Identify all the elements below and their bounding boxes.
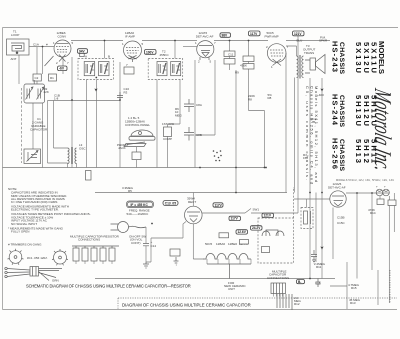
- svg-text:117V: 117V: [215, 203, 223, 207]
- svg-text:DET-AVC-AF: DET-AVC-AF: [196, 35, 214, 39]
- panel two fragment capacitors: [277, 294, 292, 310]
- svg-text:C2: C2: [35, 76, 39, 80]
- svg-text:470K: 470K: [240, 64, 247, 68]
- svg-text:CAPACITOR: CAPACITOR: [30, 128, 48, 132]
- svg-text:B-: B-: [298, 280, 301, 284]
- svg-text:R3: R3: [124, 90, 128, 94]
- wire B plus feed: [297, 36, 299, 213]
- wire antenna to converter grid: [29, 46, 54, 48]
- wire speaker return: [309, 78, 311, 279]
- svg-text:IF AMP: IF AMP: [125, 35, 135, 39]
- antenna cable assembly: [5, 267, 62, 281]
- svg-text:R13: R13: [350, 301, 356, 305]
- wire det fragment verticals: [333, 193, 394, 303]
- B plus arrow: [94, 84, 97, 92]
- voltage callout B plus: [293, 31, 305, 36]
- svg-text:C11: C11: [228, 53, 234, 57]
- svg-text:B: B: [108, 55, 110, 59]
- svg-text:50C5: 50C5: [205, 242, 213, 246]
- pill B minus: [297, 280, 305, 284]
- oscillator variable capacitor C1C: [24, 149, 41, 164]
- svg-text:R8: R8: [248, 98, 252, 102]
- svg-text:C8B: C8B: [196, 133, 202, 137]
- B plus arrow below transformer: [320, 84, 323, 92]
- svg-text:R5: R5: [128, 189, 132, 193]
- capacitor C2 box: [33, 74, 41, 81]
- wire top bus: [71, 40, 330, 42]
- chassis labels: [338, 42, 345, 171]
- capacitor C8A: [184, 99, 194, 112]
- resistor R3 box on AVC bus: [86, 171, 92, 181]
- AVC capacitor box C7: [164, 127, 172, 137]
- resistor R10 box: [262, 247, 270, 253]
- svg-text:IF = 455 KC: IF = 455 KC: [131, 203, 149, 207]
- wire T2 returns: [157, 80, 180, 168]
- tube V3 12AT6 detector-AVC-AF: [197, 41, 214, 60]
- resistor R4a box: [132, 152, 141, 160]
- oscillator coil L3: [68, 147, 77, 164]
- wire screen rail: [321, 78, 323, 279]
- electrolytic filter capacitor C15A: [376, 189, 383, 196]
- svg-text:CONNECTIONS: CONNECTIONS: [267, 276, 289, 280]
- svg-text:UNIT: UNIT: [228, 287, 235, 291]
- svg-text:121V: 121V: [294, 32, 302, 36]
- wire T1 secondary returns: [48, 80, 121, 168]
- tube V1 12BE6 converter: [45, 40, 72, 66]
- ground chassis: [143, 262, 149, 268]
- voltage callout V4 grid: [249, 31, 261, 36]
- border left: [2, 28, 4, 310]
- svg-text:1-8: 1-8: [54, 97, 59, 101]
- wire det plate L: [249, 111, 265, 168]
- wire IF primary risers: [105, 41, 176, 59]
- AC line plug: [111, 222, 147, 233]
- svg-text:HS-244: HS-244: [331, 94, 340, 126]
- svg-text:CONTROL PANEL: CONTROL PANEL: [125, 123, 150, 127]
- small note lines: [305, 86, 319, 184]
- voltage callout osc: [58, 66, 68, 71]
- svg-text:TRANS: TRANS: [304, 51, 314, 55]
- svg-text:OSC: OSC: [79, 147, 86, 151]
- svg-text:CONNECTIONS: CONNECTIONS: [78, 238, 100, 242]
- svg-text:CONT): CONT): [131, 241, 141, 245]
- wire osc grid drop: [33, 47, 63, 149]
- svg-text:455KC: 455KC: [160, 53, 170, 57]
- svg-text:ANT: ANT: [11, 57, 17, 61]
- svg-text:540——1620KC: 540——1620KC: [127, 212, 150, 216]
- IF transformer T2 455KC: [148, 59, 183, 80]
- tube V4 50C5 power amplifier: [267, 44, 286, 66]
- svg-text:RECT: RECT: [188, 200, 196, 204]
- svg-text:C16: C16: [315, 281, 321, 285]
- capacitor C17 below bus: [316, 279, 321, 288]
- svg-text:R1: R1: [50, 76, 54, 80]
- voltage callout V1 plate: [78, 49, 88, 54]
- wire osc coil feeds: [48, 101, 77, 168]
- wire AC line drop: [145, 227, 147, 262]
- wire rectifier plate riser: [192, 193, 194, 207]
- tube V5 35W4 rectifier: [185, 206, 203, 224]
- capacitor C16 with ground: [311, 250, 317, 263]
- grid capacitor C10: [117, 92, 123, 101]
- svg-text:R8: R8: [268, 96, 272, 100]
- svg-text:MODELS 5X11U, 12U, 13U, 5H11U,: MODELS 5X11U, 12U, 13U, 5H11U, 12U, 13U: [336, 179, 394, 182]
- wire B minus bus: [95, 278, 335, 280]
- svg-text:MEG: MEG: [175, 113, 183, 117]
- svg-text:C1A: C1A: [33, 43, 39, 47]
- tube socket V2: [52, 249, 68, 265]
- border bottom: [3, 309, 398, 311]
- dial lamp dashed box: [258, 187, 294, 263]
- svg-text:C15C: C15C: [337, 221, 346, 225]
- svg-text:PWR AMP: PWR AMP: [265, 35, 279, 39]
- wire det stage verticals: [195, 60, 236, 193]
- wire IF amp cathode vertical: [119, 62, 121, 168]
- capacitor C14 box: [170, 249, 180, 256]
- svg-text:C15B: C15B: [337, 216, 345, 220]
- voltage callout rectifier: [213, 203, 223, 208]
- coupling capacitor C9A box: [224, 51, 235, 57]
- svg-text:C8A: C8A: [196, 103, 202, 107]
- capacitor C8B: [184, 127, 194, 141]
- svg-text:SCHEMATIC DIAGRAM OF CHASSIS U: SCHEMATIC DIAGRAM OF CHASSIS USING MULTI…: [26, 284, 191, 289]
- model numbers row 1: [354, 42, 378, 164]
- bottom: [5, 179, 397, 310]
- svg-text:22K: 22K: [44, 90, 49, 94]
- voltage callout V2 plate: [145, 50, 157, 55]
- output transformer T3: [297, 55, 304, 79]
- svg-text:SW1: SW1: [253, 208, 260, 212]
- voltage callout heater b: [236, 230, 248, 235]
- svg-text:+: +: [376, 185, 378, 189]
- svg-text:R12: R12: [294, 302, 300, 306]
- wire antenna section vertical: [18, 55, 20, 84]
- svg-text:98V: 98V: [222, 33, 229, 37]
- svg-text:CONV: CONV: [58, 35, 67, 39]
- svg-text:BLU: BLU: [297, 39, 303, 43]
- capacitor C15 box: [388, 200, 396, 206]
- wire fragment right risers: [316, 193, 378, 310]
- gang coupling dashed link: [21, 88, 23, 163]
- svg-text:-6V: -6V: [59, 67, 65, 71]
- notes block: [8, 187, 91, 247]
- voltage callout heater c: [251, 226, 263, 231]
- resistor R12 dashed unit: [301, 208, 313, 229]
- svg-text:HS-243: HS-243: [331, 41, 340, 72]
- svg-text:R9: R9: [235, 71, 239, 75]
- svg-text:A: A: [85, 55, 87, 59]
- wire rectifier output: [202, 212, 298, 214]
- ground det: [174, 257, 179, 265]
- callout C13: [163, 201, 178, 206]
- capacitor C14A: [143, 244, 149, 246]
- capacitor C9B box: [243, 56, 254, 62]
- wire output plate lead: [286, 46, 297, 193]
- svg-text:SPKR: SPKR: [319, 39, 328, 43]
- svg-text:R15: R15: [351, 286, 357, 290]
- resistor R7 box: [224, 59, 235, 65]
- svg-text:JACK: JACK: [118, 146, 126, 150]
- wire switch line: [245, 209, 251, 214]
- tube socket V1: [8, 249, 24, 265]
- svg-text:DIAGRAM OF CHASSIS USING MULTI: DIAGRAM OF CHASSIS USING MULTIPLE CERAMI…: [122, 303, 251, 308]
- tuning gang C1A C1B: [24, 80, 45, 103]
- wire AVC line vertical: [42, 47, 44, 168]
- wire volume control drop: [136, 147, 138, 168]
- wire T2 to detector grid: [183, 46, 197, 48]
- svg-text:# TRIMMERS ON GANG: # TRIMMERS ON GANG: [8, 243, 42, 247]
- voltage callout V3 plate: [220, 33, 231, 38]
- capacitor C5 small box: [80, 53, 85, 56]
- electrolytic filter capacitor C15B: [383, 189, 390, 196]
- svg-text:1ST AVC: 1ST AVC: [162, 122, 175, 126]
- svg-text:GRN: GRN: [52, 279, 59, 283]
- IF frequency box: [127, 201, 154, 208]
- resistor R13 box: [377, 199, 384, 205]
- volume control R4 pictorial: [124, 130, 155, 147]
- wire audio coupling: [230, 41, 249, 111]
- voltage callout heater a: [229, 216, 241, 221]
- tube V6 12AV6 detector-AVC-AF fragment: [330, 191, 346, 207]
- titleblock: [305, 41, 396, 184]
- svg-text:12.6V: 12.6V: [238, 230, 247, 234]
- wire heater string riser: [146, 222, 204, 263]
- svg-text:94V: 94V: [79, 49, 86, 53]
- svg-text:R11: R11: [316, 265, 322, 269]
- svg-text:C14: C14: [151, 244, 157, 248]
- antenna T1 loop: [7, 39, 30, 55]
- tube V2 12BA6 IF amplifier: [124, 41, 142, 62]
- tubes: [45, 31, 347, 224]
- resistor R8 box: [243, 64, 254, 70]
- svg-text:LOOP: LOOP: [11, 33, 19, 37]
- border top: [3, 27, 399, 29]
- speaker LS1: [305, 55, 325, 74]
- svg-text:117V: 117V: [231, 217, 239, 221]
- caption two dotted panel: [118, 270, 397, 310]
- svg-text:121V: 121V: [264, 214, 272, 218]
- wire converter cathode vertical: [71, 57, 73, 168]
- heater string humps: [203, 254, 251, 279]
- svg-text:HS-256: HS-256: [331, 138, 340, 169]
- svg-text:24.2V: 24.2V: [252, 226, 261, 230]
- svg-text:C13 .05: C13 .05: [165, 201, 176, 205]
- svg-text:DET-AVC-AF: DET-AVC-AF: [328, 186, 346, 190]
- svg-text:12BE6: 12BE6: [228, 242, 237, 246]
- svg-text:FULLY OPEN: FULLY OPEN: [11, 230, 29, 234]
- wire B plus bus: [95, 193, 389, 208]
- svg-text:100V: 100V: [146, 50, 154, 54]
- wire AVC bus: [3, 167, 265, 169]
- resistor R1 box: [49, 74, 57, 81]
- svg-text:R14: R14: [370, 211, 376, 215]
- svg-text:+: +: [384, 185, 386, 189]
- svg-text:#C1 .05Σ 120Λ: #C1 .05Σ 120Λ: [27, 256, 47, 260]
- IF transformer T1: [78, 59, 114, 80]
- svg-text:12BA6: 12BA6: [216, 242, 225, 246]
- svg-text:COMP: COMP: [163, 137, 172, 141]
- svg-text:117V: 117V: [250, 32, 258, 36]
- capacitor C6 box: [124, 67, 134, 74]
